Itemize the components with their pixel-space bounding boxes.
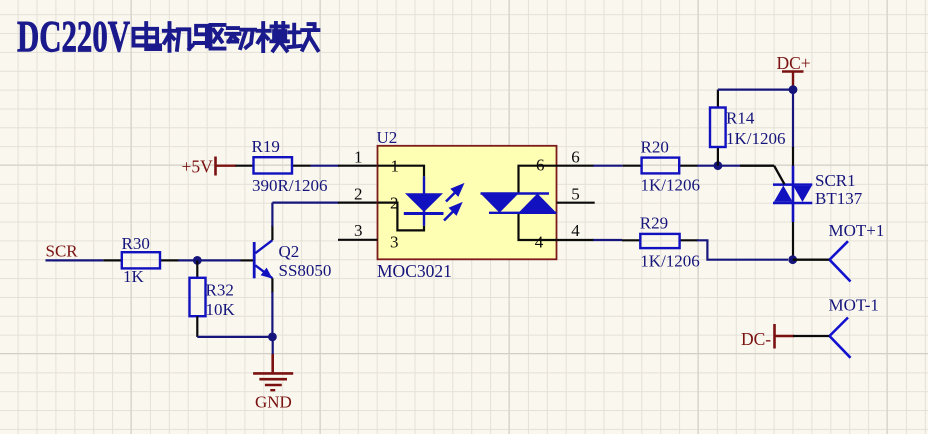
U2 internal LED xyxy=(404,176,444,225)
wire R29 elbow to MOT junction xyxy=(697,240,788,259)
svg-text:DC220V: DC220V xyxy=(17,12,130,61)
wire DC- to MOT-1 xyxy=(793,335,830,337)
svg-text:+5V: +5V xyxy=(182,157,214,177)
wire R14 top to DC+ junction xyxy=(718,88,793,90)
svg-text:SS8050: SS8050 xyxy=(279,261,332,280)
svg-text:5: 5 xyxy=(571,184,580,203)
svg-text:3: 3 xyxy=(354,221,363,240)
svg-text:Q2: Q2 xyxy=(279,242,300,261)
resistor R19 xyxy=(236,137,328,195)
svg-text:1K/1206: 1K/1206 xyxy=(640,251,700,270)
U2 internal LED routing xyxy=(378,166,425,231)
transistor Q2 xyxy=(241,240,332,280)
LED arrows xyxy=(444,185,462,220)
svg-text:R20: R20 xyxy=(641,137,669,156)
wire DC+ down to SCR1 xyxy=(792,90,794,148)
wire SCR1 down to MOT junction xyxy=(792,222,794,260)
ground GND xyxy=(253,337,293,411)
U2 pin1 stub xyxy=(338,165,378,167)
svg-text:DC-: DC- xyxy=(741,329,771,349)
power port DC- xyxy=(741,324,794,349)
IC U2 MOC3021 body xyxy=(378,146,557,259)
svg-text:SCR: SCR xyxy=(46,241,79,260)
connector MOT+1 xyxy=(830,241,851,281)
svg-text:GND: GND xyxy=(255,392,292,411)
triac SCR1 BT137 xyxy=(773,166,863,222)
svg-text:R19: R19 xyxy=(252,137,280,156)
wire pin6 to R20 xyxy=(557,165,595,167)
svg-text:1K/1206: 1K/1206 xyxy=(726,129,786,148)
svg-text:1K/1206: 1K/1206 xyxy=(641,175,701,194)
junction node MOT+1 xyxy=(788,255,797,264)
svg-text:R14: R14 xyxy=(726,109,755,128)
svg-text:R32: R32 xyxy=(206,281,234,300)
svg-text:2: 2 xyxy=(354,184,363,203)
svg-text:4: 4 xyxy=(535,232,544,251)
gate wire into SCR1 xyxy=(740,166,785,185)
svg-text:1: 1 xyxy=(354,148,363,167)
pin 3 stub xyxy=(338,239,378,241)
connector MOT-1 xyxy=(830,318,851,358)
svg-text:U2: U2 xyxy=(377,128,398,147)
svg-text:6: 6 xyxy=(571,148,580,167)
wire junction to MOT+1 xyxy=(793,259,830,261)
svg-text:3: 3 xyxy=(390,232,399,251)
wire R19 to U2 pin1 xyxy=(311,165,340,167)
wire SCR to R30 xyxy=(46,259,104,261)
pin 5 stub xyxy=(557,202,595,204)
svg-text:10K: 10K xyxy=(206,300,236,319)
resistor R30 xyxy=(103,234,178,286)
junction node emitter/R32 xyxy=(268,333,277,342)
power port +5V xyxy=(182,157,237,177)
svg-text:1K: 1K xyxy=(123,267,145,286)
U2 pin2 stub xyxy=(338,202,378,204)
junction node R14/R20 xyxy=(714,161,723,170)
svg-text:MOT-1: MOT-1 xyxy=(829,295,879,314)
svg-text:MOT+1: MOT+1 xyxy=(829,221,885,240)
power port DC+ xyxy=(777,53,811,90)
wire R30 to Q2 base xyxy=(179,259,241,261)
junction node DC+ xyxy=(789,85,798,94)
junction node base/R32 xyxy=(193,256,202,265)
resistor R29 xyxy=(622,213,700,270)
svg-text:BT137: BT137 xyxy=(815,189,863,208)
wire junction down to R32 xyxy=(196,260,198,277)
U2 internal triac xyxy=(481,194,557,213)
svg-text:MOC3021: MOC3021 xyxy=(377,261,452,281)
resistor R14 xyxy=(710,90,786,166)
wire emitter down xyxy=(271,278,273,293)
title chinese 电机驱动模块 (hand drawn strokes) xyxy=(134,23,319,51)
resistor R32 xyxy=(190,278,236,319)
wire collector up to U2 pin2 xyxy=(271,226,273,241)
svg-text:390R/1206: 390R/1206 xyxy=(252,176,328,195)
resistor R20 xyxy=(623,137,700,194)
svg-text:R29: R29 xyxy=(640,213,668,232)
wire R32 bottom elbow to emitter node xyxy=(196,316,198,337)
svg-text:DC+: DC+ xyxy=(777,53,811,73)
wire pin4 to R29 xyxy=(557,239,595,241)
svg-text:SCR1: SCR1 xyxy=(815,171,856,190)
svg-text:4: 4 xyxy=(571,221,580,240)
U2 internal triac routing xyxy=(519,166,557,240)
wire R20 to gate junction xyxy=(697,165,740,167)
svg-text:R30: R30 xyxy=(122,234,150,253)
